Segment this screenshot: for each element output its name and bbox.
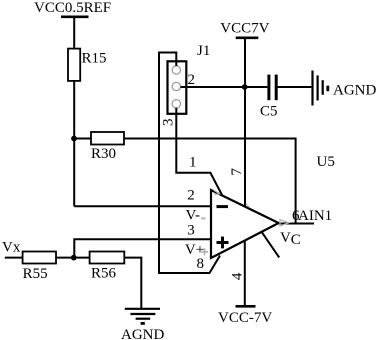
svg-text:2: 2 [188,72,196,88]
svg-text:J1: J1 [197,43,210,59]
svg-text:R30: R30 [91,146,116,162]
svg-text:3: 3 [161,119,177,127]
node junction A [71,136,77,142]
wire pin 4 to VCC-7V [244,240,246,306]
svg-text:R56: R56 [91,266,117,282]
wire J1 pin3 to op-amp pin 1 [176,108,222,196]
label Vc [280,230,301,248]
gray output arrow at apex [280,220,289,226]
wire pin 5 stub [262,232,279,257]
svg-text:4: 4 [230,272,246,280]
svg-text:3: 3 [187,223,195,239]
svg-text:U5: U5 [317,154,335,170]
wire V- input (pin 2) [74,205,210,207]
svg-text:1: 1 [189,154,197,170]
svg-text:VCC0.5REF: VCC0.5REF [34,0,111,16]
wire op-amp output [279,223,314,225]
op-amp U5 [211,154,335,258]
wire J1 pin1 loop to op-amp pin 8 [159,53,220,274]
svg-text:VCC7V: VCC7V [220,21,269,37]
wire VCC0.5REF to R15 [73,17,75,49]
svg-text:8: 8 [197,256,205,272]
J1 pin circles [172,66,180,108]
wire VCC7V to pin 7 [244,38,246,206]
resistor R56 [90,252,125,282]
svg-text:V-: V- [186,207,200,223]
svg-text:VCC-7V: VCC-7V [218,310,272,326]
connector J1 [168,43,211,114]
svg-text:Vx: Vx [2,240,21,256]
svg-text:AIN1: AIN1 [298,208,332,224]
svg-text:C5: C5 [260,104,278,120]
ground AGND (bottom, earth style) [121,309,164,340]
svg-text:AGND: AGND [333,83,376,99]
wire R15 down to V- corner [73,81,75,206]
ground AGND (right, bar style) [313,71,377,106]
svg-text:V: V [280,230,291,246]
svg-text:7: 7 [229,168,245,176]
gray tick at pin 7 [246,204,249,207]
gray pin mark minus (hidden pin) [201,217,206,219]
gray arrow on top slope [214,190,220,194]
wire junction A to R30 [74,138,91,140]
svg-text:R55: R55 [23,266,48,282]
wire Vx lead-in [5,257,23,259]
node junction VCC7V/C5 [242,84,248,90]
plus symbol [217,237,229,249]
svg-text:AGND: AGND [121,327,164,340]
svg-text:C: C [291,232,301,248]
wire R56 to ground [124,258,141,309]
resistor R15 [68,49,107,81]
wire C5 to AGND [278,86,312,88]
resistor R30 [91,132,124,162]
wire node to C5 [245,86,268,88]
power VCC-7V [218,306,272,326]
power VCC0.5REF [34,0,111,17]
svg-text:R15: R15 [82,50,107,66]
resistor R55 [23,252,56,282]
power VCC7V [220,21,269,38]
capacitor C5 [260,75,278,120]
node junction B [71,255,77,261]
wire V+ input (pin 3) [74,239,210,257]
svg-text:2: 2 [187,188,195,204]
wire J1 pin2 to VCC7V node [181,86,245,88]
wire R55 to R56 [56,257,90,259]
gray pin mark plus (hidden pin) [201,248,208,255]
minus symbol [217,205,229,208]
wire feedback R30 to output node [124,139,296,224]
